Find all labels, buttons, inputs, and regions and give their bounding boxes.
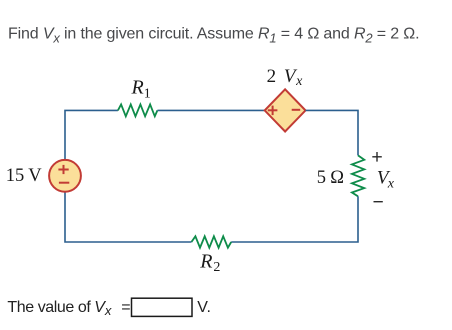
minus sign inside source — [59, 182, 69, 184]
minus sign inside diamond — [292, 109, 301, 111]
svg-text:15: 15 — [6, 166, 25, 186]
svg-text:2: 2 — [213, 260, 220, 275]
svg-text:V.: V. — [197, 299, 211, 316]
wire top-middle segment — [157, 109, 264, 111]
svg-text:x: x — [295, 74, 303, 89]
svg-text:R: R — [131, 76, 144, 98]
svg-text:V: V — [28, 166, 42, 186]
wire bottom-left segment with corner up to source bottom — [65, 192, 191, 243]
answer input box — [132, 298, 193, 316]
svg-text:2: 2 — [267, 66, 277, 87]
wire top-right segment with corner down to 5 ohm resistor — [306, 110, 359, 155]
resistor R1 — [118, 104, 157, 116]
svg-text:5: 5 — [317, 168, 326, 188]
svg-text:1: 1 — [144, 87, 151, 102]
plus sign inside source — [58, 169, 68, 171]
svg-text:Vx: Vx — [94, 299, 112, 318]
svg-text:R: R — [199, 251, 212, 273]
resistor 5 ohm — [352, 155, 364, 196]
voltage source 15V circle — [49, 160, 81, 192]
resistor R2 — [191, 236, 231, 247]
plus sign inside diamond — [268, 109, 278, 111]
wire top-left segment with corner down to source top — [65, 110, 118, 160]
svg-text:Ω: Ω — [330, 168, 344, 188]
svg-text:x: x — [387, 177, 395, 192]
wire right lower segment with corner to resistor R2 — [231, 196, 358, 242]
svg-text:=: = — [121, 299, 130, 316]
minus sign of Vx polarity — [374, 201, 383, 203]
svg-text:Find Vx in the given circuit.: Find Vx in the given circuit. Assume R1 … — [8, 26, 419, 46]
plus sign of Vx polarity — [372, 156, 382, 158]
svg-text:The value of: The value of — [7, 299, 91, 316]
dependent source diamond 2Vx — [265, 89, 306, 131]
